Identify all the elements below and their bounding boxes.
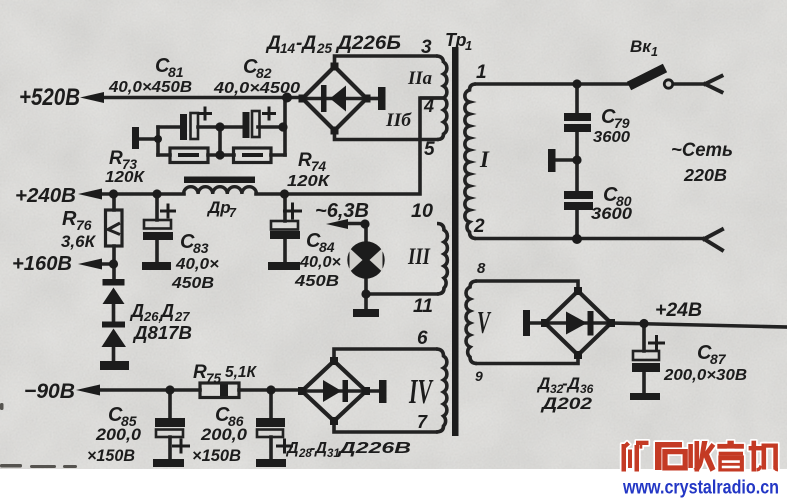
- svg-text:R: R: [109, 148, 123, 169]
- svg-text:I: I: [479, 147, 490, 172]
- svg-text:2: 2: [473, 216, 485, 237]
- svg-text:9: 9: [475, 368, 483, 384]
- svg-text:Д202: Д202: [540, 394, 593, 413]
- svg-text:+24В: +24В: [655, 300, 702, 321]
- svg-text:82: 82: [256, 65, 272, 81]
- svg-text:3,6К: 3,6К: [61, 233, 97, 251]
- svg-text:7: 7: [229, 206, 237, 220]
- svg-text:74: 74: [311, 159, 327, 174]
- svg-text:83: 83: [193, 240, 209, 256]
- svg-text:×150В: ×150В: [87, 447, 135, 465]
- svg-text:84: 84: [319, 239, 335, 255]
- svg-text:1: 1: [651, 45, 658, 59]
- svg-text:76: 76: [76, 217, 92, 233]
- svg-text:IV: IV: [408, 372, 433, 411]
- svg-text:8: 8: [477, 260, 486, 277]
- svg-text:220В: 220В: [683, 165, 727, 185]
- svg-text:Д: Д: [159, 301, 174, 321]
- svg-text:Д: Д: [285, 440, 299, 457]
- svg-text:Вк: Вк: [630, 37, 652, 56]
- svg-text:5: 5: [424, 139, 435, 160]
- svg-text:450В: 450В: [171, 275, 214, 292]
- svg-text:~Сеть: ~Сеть: [671, 140, 733, 161]
- svg-text:Д226Б: Д226Б: [335, 33, 401, 54]
- svg-text:−90В: −90В: [24, 379, 75, 403]
- svg-text:40,0×450В: 40,0×450В: [108, 79, 192, 96]
- svg-text:1: 1: [476, 62, 487, 83]
- svg-text:40,0×: 40,0×: [175, 256, 219, 273]
- svg-text:4: 4: [423, 96, 434, 116]
- svg-text:Д817В: Д817В: [132, 323, 192, 343]
- svg-text:IIа: IIа: [407, 68, 432, 89]
- svg-text:75: 75: [206, 371, 222, 386]
- svg-text:~6,3В: ~6,3В: [315, 200, 369, 222]
- svg-text:-Д: -Д: [562, 374, 580, 393]
- svg-text:7: 7: [417, 412, 428, 432]
- svg-text:-Д: -Д: [296, 33, 316, 54]
- svg-text:120К: 120К: [105, 169, 145, 186]
- svg-text:Д: Д: [536, 374, 550, 393]
- svg-text:200,0: 200,0: [95, 426, 142, 444]
- svg-text:IIб: IIб: [385, 110, 413, 131]
- svg-text:6: 6: [417, 328, 428, 349]
- svg-text:120К: 120К: [287, 173, 330, 190]
- svg-text:III: III: [407, 244, 431, 269]
- svg-text:3: 3: [421, 37, 432, 58]
- svg-text:R: R: [62, 208, 77, 230]
- svg-text:200,0×30В: 200,0×30В: [663, 367, 747, 384]
- svg-text:-Д: -Д: [310, 440, 327, 457]
- svg-text:V: V: [477, 304, 492, 340]
- svg-text:11: 11: [413, 296, 433, 317]
- svg-text:27: 27: [174, 309, 190, 324]
- svg-text:3600: 3600: [593, 129, 630, 146]
- svg-text:25: 25: [316, 41, 333, 56]
- svg-text:450В: 450В: [294, 273, 339, 290]
- svg-text:31: 31: [327, 448, 340, 460]
- svg-text:40,0×: 40,0×: [299, 254, 341, 271]
- svg-text:+520В: +520В: [19, 84, 80, 111]
- svg-text:5,1К: 5,1К: [225, 364, 257, 381]
- svg-text:×150В: ×150В: [192, 447, 241, 465]
- svg-text:14: 14: [280, 41, 296, 56]
- svg-text:1: 1: [465, 38, 472, 53]
- svg-text:+160В: +160В: [12, 252, 72, 275]
- svg-text:R: R: [193, 362, 207, 383]
- svg-text:200,0: 200,0: [200, 426, 248, 444]
- svg-text:87: 87: [710, 351, 727, 367]
- svg-text:www.crystalradio.cn: www.crystalradio.cn: [622, 478, 779, 499]
- svg-text:R: R: [298, 150, 312, 171]
- svg-text:Д226В: Д226В: [336, 440, 411, 457]
- svg-text:40,0×4500: 40,0×4500: [213, 80, 300, 97]
- svg-text:10: 10: [411, 201, 433, 222]
- svg-text:Д: Д: [265, 33, 281, 54]
- svg-text:+240В: +240В: [15, 184, 76, 207]
- svg-text:81: 81: [168, 64, 184, 80]
- svg-text:26,: 26,: [143, 309, 162, 324]
- svg-text:3600: 3600: [591, 205, 633, 223]
- svg-text:Др: Др: [206, 198, 231, 217]
- svg-text:Тр: Тр: [445, 30, 467, 50]
- svg-text:Д: Д: [129, 301, 144, 321]
